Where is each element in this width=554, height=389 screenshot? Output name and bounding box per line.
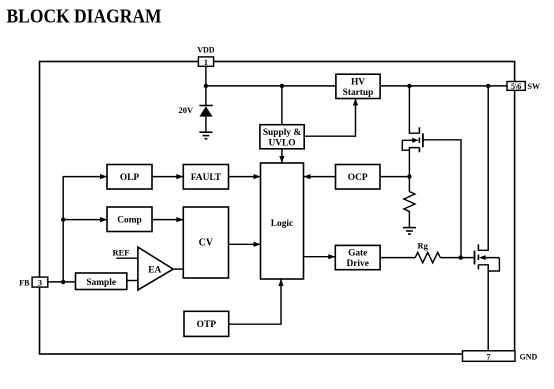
node: comp branch junction — [61, 217, 65, 221]
pin 3 FB — [19, 277, 48, 288]
svg-text:GND: GND — [520, 352, 538, 361]
transistor Q2 source lead — [478, 265, 488, 351]
arrowhead into Comp — [100, 217, 107, 222]
block FAULT — [183, 165, 228, 190]
transistor Q2 gate bar — [474, 251, 476, 265]
wire: Supply & UVLO to Logic — [281, 149, 283, 163]
svg-text:REF: REF — [113, 248, 130, 258]
wire: EA output to CV — [173, 268, 183, 270]
node: FB branch junction — [61, 280, 65, 284]
zener diode 20V cathode bar — [199, 105, 212, 107]
svg-text:Sample: Sample — [86, 278, 116, 288]
resistor Rsense (vertical) — [404, 177, 415, 228]
svg-text:Gate: Gate — [348, 249, 367, 259]
node: main FET drain junction — [486, 84, 490, 88]
wire: Logic to Gate Drive — [304, 256, 336, 258]
wire: OTP to Logic — [229, 279, 281, 324]
block Comp — [107, 207, 152, 232]
wire: OLP to FAULT — [152, 176, 183, 178]
svg-text:Supply &: Supply & — [263, 128, 301, 138]
transistor Q2 body tie bracket — [488, 258, 499, 271]
op-amp EA (error amplifier) — [138, 247, 173, 290]
wire: branch to Comp — [63, 219, 107, 221]
svg-text:CV: CV — [199, 238, 214, 249]
ground (below Rsense) — [403, 228, 416, 235]
svg-text:OCP: OCP — [348, 173, 368, 183]
transistor Q2 (main power MOSFET) drain lead — [478, 86, 488, 250]
wire: VDD pin lead down — [205, 66, 207, 105]
wire: REF input to EA — [116, 257, 137, 259]
wire: left feedback branch vertical — [63, 177, 107, 282]
wire: OCP to Logic — [304, 176, 336, 178]
block Sample — [76, 273, 127, 290]
wire: zener anode lead — [205, 117, 207, 132]
resistor Rg (horizontal) — [415, 252, 440, 262]
wire: Comp to CV — [152, 219, 183, 221]
transistor Q1 gate bar — [422, 133, 424, 147]
wire: Supply & UVLO to HV Startup — [304, 99, 355, 137]
block HV Startup — [336, 74, 380, 98]
svg-text:7: 7 — [487, 353, 491, 362]
svg-text:HV: HV — [351, 78, 365, 88]
arrowhead into OLP — [100, 174, 107, 179]
svg-text:Rg: Rg — [418, 241, 429, 251]
svg-text:UVLO: UVLO — [268, 139, 295, 149]
svg-text:BLOCK DIAGRAM: BLOCK DIAGRAM — [7, 5, 162, 27]
block Supply & UVLO — [260, 125, 304, 149]
svg-text:FAULT: FAULT — [191, 173, 222, 183]
block OCP — [336, 165, 381, 190]
block OLP — [107, 165, 152, 190]
wire: CV to Logic — [229, 243, 261, 245]
transistor Q2 body arrow — [483, 257, 499, 259]
svg-text:OLP: OLP — [120, 173, 140, 183]
wire: OCP to sense node — [380, 176, 409, 178]
node: supply branch junction — [280, 84, 284, 88]
wire: Rg to gate node — [440, 257, 474, 259]
svg-text:3: 3 — [38, 279, 42, 288]
ground (below zener) — [199, 132, 212, 139]
svg-text:5\6: 5\6 — [511, 82, 521, 91]
wire: VDD bus (horizontal net at y=85.9 from VDD pin to SW pin) — [206, 85, 507, 87]
node: startup FET drain junction — [407, 84, 411, 88]
outer IC boundary box — [40, 62, 515, 355]
block OTP — [184, 311, 229, 336]
wire: Sample to EA — [127, 280, 138, 282]
svg-text:SW: SW — [528, 82, 540, 91]
pin 7 GND — [463, 351, 538, 362]
svg-text:EA: EA — [148, 266, 161, 276]
block CV — [183, 207, 228, 278]
block Logic — [261, 163, 304, 279]
svg-text:Startup: Startup — [343, 88, 374, 98]
transistor Q1 channel segments — [418, 127, 420, 152]
node: VDD junction — [204, 84, 208, 88]
transistor Q1 body arrow — [402, 139, 414, 141]
pin 5/6 SW — [507, 82, 540, 92]
node: sense junction — [407, 174, 411, 178]
transistor Q1 body tie bracket — [402, 140, 409, 150]
svg-text:20V: 20V — [179, 105, 195, 115]
transistor Q1 source lead — [409, 148, 419, 177]
pin 1 VDD — [197, 46, 215, 68]
svg-text:Drive: Drive — [347, 259, 369, 269]
wire: FB pin to Sample — [48, 281, 76, 283]
svg-text:Comp: Comp — [117, 215, 141, 225]
wire: FAULT to Logic — [229, 176, 261, 178]
svg-text:1: 1 — [204, 58, 208, 67]
svg-text:Logic: Logic — [271, 219, 293, 229]
wire: Gate Drive to Rg — [380, 257, 415, 259]
block Gate Drive — [335, 245, 380, 269]
zener diode 20V body — [199, 106, 212, 116]
svg-text:OTP: OTP — [197, 320, 217, 330]
transistor Q1 (HV startup depletion FET) drain lead — [409, 86, 419, 133]
node: gate junction — [459, 255, 463, 259]
wire: Q1 gate lead to gate net — [424, 140, 462, 258]
svg-text:VDD: VDD — [197, 46, 215, 55]
wire: branch down to Supply & UVLO — [281, 86, 283, 125]
transistor Q2 channel segments — [477, 244, 479, 269]
svg-text:FB: FB — [19, 278, 30, 287]
